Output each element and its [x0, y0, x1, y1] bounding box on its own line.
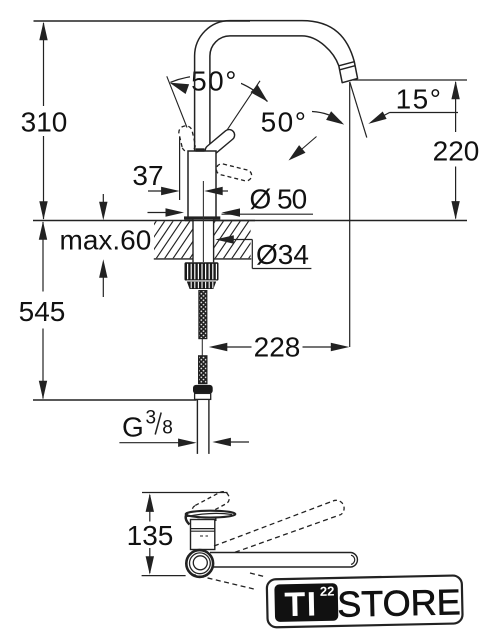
- svg-text:135: 135: [127, 520, 174, 551]
- svg-text:15°: 15°: [396, 83, 443, 114]
- svg-text:Ø34: Ø34: [256, 239, 309, 270]
- svg-text:50°: 50°: [261, 106, 308, 137]
- svg-text:50°: 50°: [191, 66, 238, 97]
- svg-text:3: 3: [146, 408, 157, 429]
- svg-text:545: 545: [19, 296, 66, 327]
- svg-text:8: 8: [162, 418, 173, 439]
- svg-text:220: 220: [433, 136, 480, 167]
- svg-text:310: 310: [21, 106, 68, 137]
- svg-text:37: 37: [132, 160, 163, 191]
- svg-text:TI: TI: [284, 585, 318, 624]
- svg-text:max.60: max.60: [60, 224, 152, 255]
- svg-text:STORE: STORE: [337, 581, 461, 625]
- svg-text:22: 22: [320, 584, 335, 599]
- svg-text:G: G: [122, 412, 144, 443]
- svg-text:228: 228: [254, 331, 301, 362]
- svg-text:Ø 50: Ø 50: [250, 183, 307, 214]
